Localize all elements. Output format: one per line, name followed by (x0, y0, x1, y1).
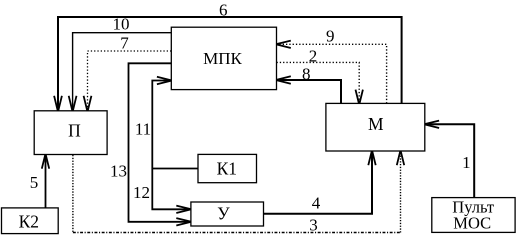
wire 9 (dotted, M top to MPK right) (276, 41, 387, 104)
svg-text:11: 11 (135, 120, 151, 139)
wire 1 (Pult MOS to M right) (424, 121, 474, 198)
svg-text:2: 2 (309, 47, 318, 66)
wire 3 (dotted, P bottom along page bottom to M bottom) (73, 150, 404, 232)
svg-text:3: 3 (309, 216, 318, 235)
svg-text:8: 8 (302, 65, 311, 84)
wire 6 (M top to P top) (54, 17, 402, 112)
svg-text:6: 6 (219, 0, 228, 19)
block P (34, 111, 107, 155)
block MPK (171, 27, 276, 89)
wire 13 (MPK left to U left) (129, 63, 192, 225)
wire 2 (dotted, MPK right to M top) (277, 62, 363, 104)
svg-text:5: 5 (30, 173, 39, 192)
svg-text:10: 10 (113, 15, 130, 34)
block K1 (198, 154, 257, 182)
wire 8 (M top to MPK right) (276, 76, 341, 103)
svg-text:У: У (217, 203, 230, 223)
wire 4 (U right to M bottom) (264, 150, 376, 214)
svg-text:1: 1 (462, 153, 471, 172)
svg-text:МОС: МОС (453, 213, 491, 232)
svg-text:7: 7 (120, 33, 129, 52)
wire 5 (K2 to P bottom) (42, 154, 49, 208)
svg-text:12: 12 (133, 183, 150, 202)
svg-text:13: 13 (110, 162, 127, 181)
block U (191, 202, 264, 226)
svg-text:М: М (368, 114, 384, 134)
wire 7 (dotted, MPK left to P top) (84, 51, 172, 112)
wire 11-12 bus (K1 to MPK and U) (152, 77, 198, 213)
block M (326, 103, 425, 151)
svg-text:4: 4 (312, 194, 321, 213)
svg-text:К1: К1 (217, 158, 237, 178)
block Pult MOS (432, 197, 515, 232)
wire 10 (MPK left to P top) (69, 33, 172, 112)
svg-text:П: П (68, 120, 81, 140)
svg-text:МПК: МПК (203, 49, 242, 68)
svg-text:К2: К2 (19, 211, 39, 231)
block K2 (2, 208, 59, 234)
svg-text:9: 9 (326, 27, 335, 46)
